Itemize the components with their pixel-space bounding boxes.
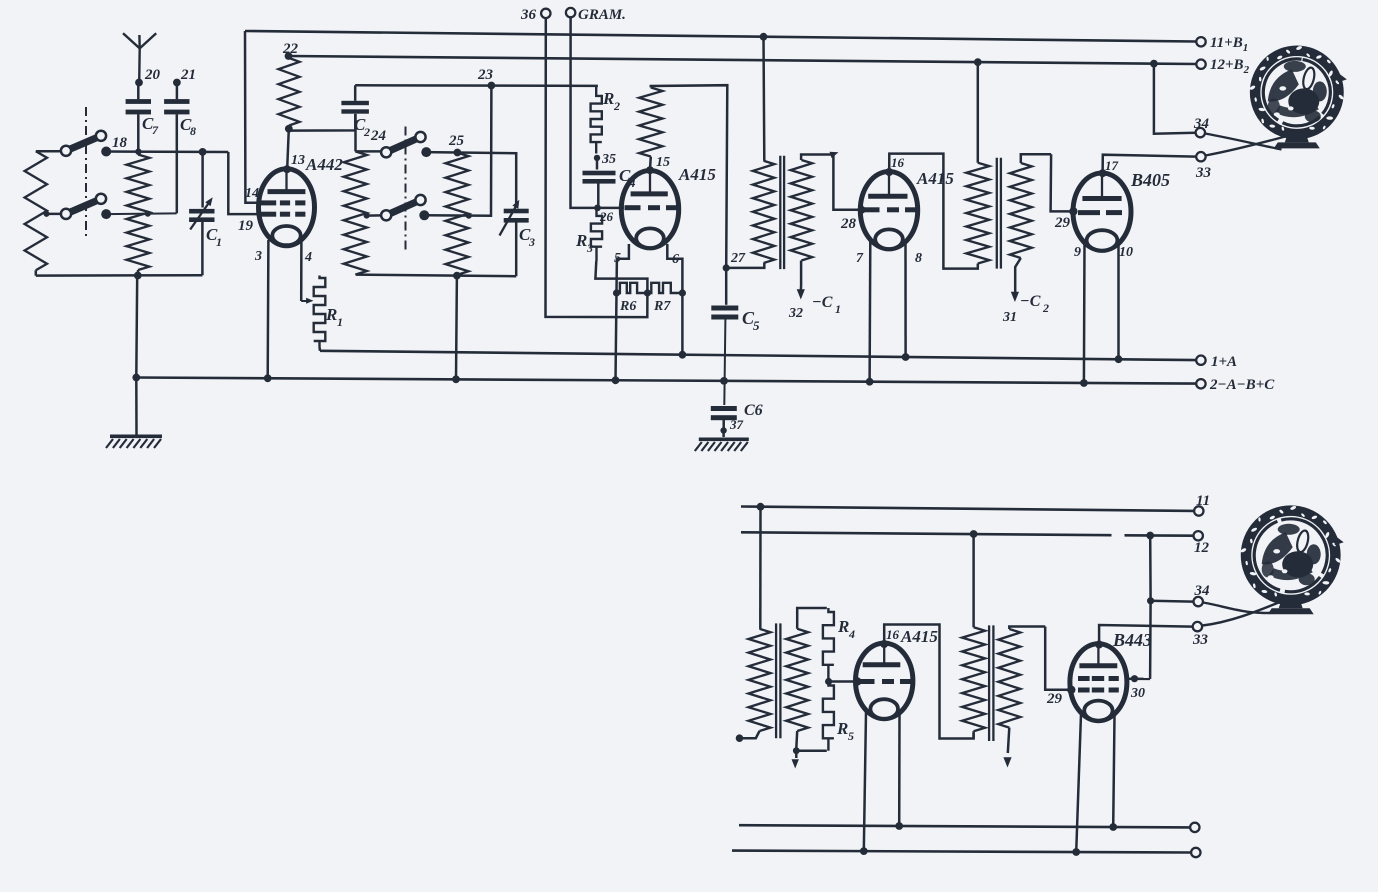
svg-text:31: 31 xyxy=(1002,310,1017,325)
label 14 xyxy=(245,186,259,201)
label B443 xyxy=(1112,630,1152,650)
pin 16 dot of V3 xyxy=(885,168,893,176)
svg-text:33: 33 xyxy=(1195,165,1212,181)
node L4 bottom xyxy=(453,272,461,280)
node V6fil-right xyxy=(1109,823,1117,831)
svg-text:30: 30 xyxy=(1130,686,1145,701)
label 6 xyxy=(672,252,679,267)
input stub dot of T3 xyxy=(736,734,744,742)
transformer T4 primary xyxy=(962,627,985,738)
svg-text:4: 4 xyxy=(848,627,855,641)
svg-text:17: 17 xyxy=(1105,158,1119,173)
svg-text:15: 15 xyxy=(656,155,670,170)
T2 secondary bias arrow (-C2) xyxy=(1011,288,1019,302)
wire node23 drop to L4 tap xyxy=(424,86,492,216)
T1 secondary bias arrow (-C1) xyxy=(797,286,805,300)
label B405 xyxy=(1130,170,1170,190)
node 27 xyxy=(723,251,746,272)
switch 18 contact dots xyxy=(101,147,111,220)
svg-text:10: 10 xyxy=(1119,245,1133,260)
wire pin 19 lead xyxy=(228,152,261,214)
node pin7-bus2 xyxy=(866,378,874,386)
wire T2 sec to B405 grid 29 xyxy=(1051,154,1072,211)
terminal 1+A xyxy=(1196,354,1237,370)
svg-text:B405: B405 xyxy=(1130,170,1170,190)
wire bottom bus 11 xyxy=(741,507,1194,511)
svg-text:27: 27 xyxy=(730,251,746,266)
wire T3 sec bottom to R5 xyxy=(796,749,827,752)
wire +B1 drop to T1 primary xyxy=(762,37,765,161)
tube V3 A415 xyxy=(860,172,917,250)
label 17 xyxy=(1105,158,1119,173)
node 20 xyxy=(135,67,160,86)
node V5 grid dot xyxy=(853,677,861,685)
svg-text:A415: A415 xyxy=(678,165,716,184)
label A415 (V3) xyxy=(916,169,954,188)
wire term34b to speaker2 base xyxy=(1203,603,1281,614)
svg-text:20: 20 xyxy=(144,67,161,83)
node R6 left xyxy=(613,289,620,296)
label R3 xyxy=(575,231,593,255)
node 29 dot xyxy=(1069,207,1077,215)
wire bottom bus 12b xyxy=(1125,534,1195,537)
slider arrow into R1 xyxy=(301,298,313,304)
svg-text:37: 37 xyxy=(729,417,744,432)
wire lower bus 2 xyxy=(732,851,1191,853)
terminal 2-A-B+C xyxy=(1196,377,1275,393)
wire bus11 drop to T3 primary xyxy=(759,507,762,629)
wire terminal33 to speaker body xyxy=(1206,136,1290,156)
resistor R4 xyxy=(823,608,834,682)
transformer T4 core xyxy=(989,625,993,741)
loudspeaker (top) xyxy=(1249,45,1347,148)
wire V5 anode to T4 primary bottom xyxy=(884,625,973,739)
wire bus 1+A xyxy=(320,351,1196,360)
node screen/term34 T xyxy=(1147,597,1154,604)
wire node to V1 anode pin 13 xyxy=(287,129,289,169)
terminal 36 xyxy=(520,7,551,23)
label 22 xyxy=(282,41,299,57)
label 30 xyxy=(1130,686,1145,701)
resistor R2 (grid leak) xyxy=(591,86,602,154)
node bus2 left end xyxy=(132,374,140,382)
switch 24 lower arm xyxy=(381,195,426,221)
label R5 xyxy=(836,719,854,743)
loudspeaker (bottom) xyxy=(1240,505,1344,614)
svg-text:29: 29 xyxy=(1046,691,1063,707)
node pin8-busA xyxy=(902,353,910,361)
transformer T1 secondary xyxy=(791,155,834,287)
svg-text:−C: −C xyxy=(1020,293,1041,310)
label 32 xyxy=(788,306,803,321)
svg-text:12: 12 xyxy=(1194,540,1210,556)
label R7 xyxy=(653,299,671,314)
wire +B2 to terminal 34 xyxy=(1154,64,1196,134)
label 5 xyxy=(614,251,621,266)
svg-text:5: 5 xyxy=(848,729,854,743)
arrow on T1 secondary top corner xyxy=(830,152,839,158)
label 19 xyxy=(238,218,254,234)
node V6fil-left xyxy=(1072,848,1080,856)
wire L3 tap to switch 24 lower xyxy=(367,214,384,217)
node pin3 on bus2 xyxy=(264,374,272,382)
svg-text:22: 22 xyxy=(282,41,299,57)
wire lower bus 1 xyxy=(739,825,1190,827)
terminal 11 (bottom) xyxy=(1194,493,1210,516)
node on bus 12 at T4 feed xyxy=(970,530,978,538)
label 24 xyxy=(370,128,387,144)
terminal 12+B2 xyxy=(1196,57,1249,76)
label 13 xyxy=(291,153,305,168)
label 29 (bottom) xyxy=(1046,691,1063,707)
ground at C6 xyxy=(722,431,725,438)
svg-text:R: R xyxy=(325,305,337,324)
capacitor C4 xyxy=(583,158,637,206)
wire pin8 of V3 to busA xyxy=(904,241,907,357)
wire V5 filament left to lower bus2 xyxy=(864,712,866,851)
terminal GRAM xyxy=(566,7,626,23)
terminal 34 (bottom) xyxy=(1194,583,1211,606)
svg-text:35: 35 xyxy=(601,152,616,167)
node 35 xyxy=(594,152,616,167)
svg-text:33: 33 xyxy=(1192,632,1209,648)
chassis ground symbol xyxy=(106,435,162,449)
svg-text:8: 8 xyxy=(190,124,196,138)
svg-text:R7: R7 xyxy=(653,299,671,314)
wire bottom return (L3/L4/C3) xyxy=(356,275,516,277)
label -C1 xyxy=(812,294,841,316)
pin16 dot of V5 xyxy=(880,640,888,648)
svg-text:R: R xyxy=(602,89,614,108)
resistor R5 xyxy=(823,682,834,751)
wire pin5 of V2 to R6 left xyxy=(617,244,629,291)
label -C2 xyxy=(1020,293,1049,315)
tube V2 A415 xyxy=(621,171,678,249)
tube V4 B405 xyxy=(1073,173,1131,251)
svg-text:18: 18 xyxy=(112,135,128,151)
label 9 xyxy=(1074,245,1081,260)
wire bus12 drop to screen/term34 xyxy=(1149,536,1152,679)
svg-text:R: R xyxy=(575,231,587,250)
svg-text:5: 5 xyxy=(753,318,760,333)
wire T to terminal 34 (bottom) xyxy=(1151,600,1193,603)
terminal lower bus1 xyxy=(1190,823,1199,832)
label 10 xyxy=(1119,245,1133,260)
svg-text:−C: −C xyxy=(812,294,833,311)
node 22 junction on +B2 bus xyxy=(285,52,293,60)
wire bottom return (L1/L2/C1) xyxy=(36,274,203,277)
svg-text:R6: R6 xyxy=(619,299,636,314)
transformer T3 core xyxy=(776,623,780,738)
svg-text:3: 3 xyxy=(586,241,593,255)
wire R3 bottom to R6R7 mid xyxy=(595,261,647,291)
svg-text:B443: B443 xyxy=(1112,630,1152,650)
node V5fil-right xyxy=(895,822,903,830)
tube V5 A415 xyxy=(856,643,913,719)
svg-text:4: 4 xyxy=(304,250,312,265)
node L2 ground junction xyxy=(134,272,142,280)
node pin10-busA xyxy=(1115,355,1123,363)
node coil2 top xyxy=(135,149,141,155)
svg-text:34: 34 xyxy=(1193,116,1210,132)
node L3 tap xyxy=(364,213,370,219)
svg-text:A415: A415 xyxy=(900,627,938,646)
wire +B2 drop to T2 primary xyxy=(977,62,980,163)
svg-text:R: R xyxy=(837,617,849,636)
wire R4R5 mid to V5 grid xyxy=(829,680,857,683)
svg-text:19: 19 xyxy=(238,218,254,234)
wire +B1 to pin 14 of V1 xyxy=(245,31,260,203)
transformer T2 primary xyxy=(966,163,989,269)
node on bus 12 at B443 screen drop xyxy=(1146,532,1154,540)
label 15 xyxy=(656,155,670,170)
node 21 xyxy=(173,67,196,86)
resistor R3 xyxy=(591,208,602,261)
transformer T2 core xyxy=(997,158,1001,269)
wire V6 filament left to lower bus2 xyxy=(1076,714,1081,852)
capacitor C6 xyxy=(711,402,763,429)
wire GRAM to grid node 26 xyxy=(571,17,597,208)
wire V6 filament right to lower bus1 xyxy=(1113,716,1114,827)
resistor R7 (filament) xyxy=(647,283,682,293)
svg-text:A442: A442 xyxy=(305,155,343,174)
node on bus 11 at T3 feed xyxy=(757,503,765,511)
node L4-bus2 xyxy=(452,375,460,383)
capacitor C8 xyxy=(164,83,196,214)
switch 24 contact dots xyxy=(419,147,431,220)
wire pin9 of V4 to bus2 xyxy=(1083,243,1086,383)
label 16 (V5) xyxy=(886,627,900,642)
switch 24 upper arm xyxy=(381,132,426,158)
capacitor C2 xyxy=(341,85,370,151)
wire node26 to V2 grid xyxy=(598,207,625,210)
svg-text:2: 2 xyxy=(363,125,370,139)
wire terminal34 to speaker base xyxy=(1205,134,1282,150)
capacitor C3 (variable) xyxy=(500,200,536,276)
capacitor C5 xyxy=(711,268,760,405)
svg-text:C6: C6 xyxy=(744,402,763,419)
svg-text:28: 28 xyxy=(840,216,857,232)
tube V6 B443 xyxy=(1070,644,1127,721)
label 7 xyxy=(856,251,864,266)
wire bottom bus 12a xyxy=(741,532,1112,535)
svg-text:16: 16 xyxy=(891,155,905,170)
svg-text:16: 16 xyxy=(886,627,900,642)
resistor R6 (filament) xyxy=(617,283,648,293)
svg-text:21: 21 xyxy=(180,67,196,83)
chassis ground symbol 2 xyxy=(695,438,749,452)
wire pin6 of V2 to R7 right xyxy=(667,244,682,291)
node junction on +B1 bus at transformer T1 feed xyxy=(760,33,768,41)
svg-text:1: 1 xyxy=(835,302,841,316)
terminal 34 (top) xyxy=(1193,116,1210,137)
terminal lower bus2 xyxy=(1191,848,1200,857)
capacitor C7 xyxy=(126,83,159,152)
wire pin 4 of V1 to R1 slider xyxy=(300,240,303,301)
label R4 xyxy=(837,617,855,641)
label R2 xyxy=(602,89,620,113)
terminal 12 (bottom) xyxy=(1194,531,1210,556)
svg-text:29: 29 xyxy=(1054,215,1071,231)
pin 13 dot of V1 xyxy=(283,165,291,173)
inductor L2 (tuning coil) xyxy=(127,155,150,271)
svg-text:2: 2 xyxy=(1042,301,1049,315)
node junction on +B2 bus at terminal-34 drop xyxy=(1150,60,1158,68)
pin 15 dot of V2 xyxy=(646,166,654,174)
svg-text:24: 24 xyxy=(370,128,387,144)
resistor 22 (anode resistor of V1) xyxy=(279,56,300,129)
node C5/C6 on bus2 xyxy=(720,377,728,385)
wire L1 tap to switch xyxy=(44,211,65,217)
node T3 sec bottom xyxy=(793,747,800,754)
wire pin10 of V4 to busA xyxy=(1117,243,1120,359)
pin 17 dot of V4 xyxy=(1099,169,1107,177)
svg-text:32: 32 xyxy=(788,306,803,321)
wire L2 bottom lead xyxy=(137,270,140,276)
terminal 33 (bottom) xyxy=(1192,622,1209,648)
node 23 xyxy=(477,67,495,89)
wire L4 bottom to bus2 xyxy=(455,276,458,380)
node C1 top junction xyxy=(199,148,207,156)
node R6/R7 mid xyxy=(644,289,651,296)
node R6L-bus2 xyxy=(612,376,620,384)
node R4/R5 midpoint xyxy=(825,678,832,685)
T4 secondary bias arrow xyxy=(1003,757,1011,767)
transformer T2 secondary xyxy=(1010,154,1051,288)
switch 18 gang dash-dot line xyxy=(85,107,87,240)
transformer T1 core xyxy=(780,156,784,269)
wire V5 filament right to lower bus1 xyxy=(898,714,901,826)
wire V6 anode to terminal 33 xyxy=(1099,625,1192,645)
terminal 11+B1 xyxy=(1196,35,1248,54)
inductor L3 xyxy=(344,151,384,274)
svg-text:11: 11 xyxy=(1196,493,1210,509)
transformer T1 primary xyxy=(728,161,775,268)
svg-text:2−A−B+C: 2−A−B+C xyxy=(1209,377,1275,393)
node R7R-busA xyxy=(679,351,687,359)
transformer T4 secondary xyxy=(998,627,1045,754)
wire terminal36 to R6R7 midpoint xyxy=(546,18,648,317)
label A415 (V5) xyxy=(900,627,938,646)
label 3 xyxy=(254,249,262,264)
node L4 tap xyxy=(466,213,472,219)
svg-text:9: 9 xyxy=(1074,245,1081,260)
wire T4 sec to B443 grid 29 xyxy=(1045,627,1071,690)
wire pin 3 of V1 to bus2 xyxy=(266,240,269,378)
tall resistor above pin 15 (anode load V2) xyxy=(639,88,662,170)
node 28 dot xyxy=(858,206,866,214)
node 25 xyxy=(448,133,465,156)
switch 18 lower arm xyxy=(61,194,106,219)
label 8 xyxy=(915,251,922,266)
wire bus 2-A-B+C xyxy=(136,378,1196,384)
wire switch to L2 tap / C8 xyxy=(106,211,177,217)
pin dot V6 top xyxy=(1095,641,1103,649)
wire R7-right to bus 1+A xyxy=(681,293,684,355)
svg-text:3: 3 xyxy=(254,249,262,264)
svg-text:1: 1 xyxy=(216,235,222,249)
svg-text:23: 23 xyxy=(477,67,494,83)
wire R6-left to bus2 xyxy=(616,293,617,380)
svg-text:36: 36 xyxy=(520,7,537,23)
transformer T3 primary xyxy=(740,629,771,738)
svg-text:8: 8 xyxy=(915,251,922,266)
switch 18 upper arm xyxy=(61,131,106,156)
label A415 (V2) xyxy=(678,165,716,184)
label R6 xyxy=(619,299,636,314)
node pin9-bus2 xyxy=(1080,379,1088,387)
node junction on +B2 bus at transformer T2 feed xyxy=(974,58,982,66)
wire V3 anode to T2 primary bottom xyxy=(889,154,974,269)
label A442 xyxy=(305,155,343,174)
wire 23-line (C2 top to R2) xyxy=(355,84,598,87)
svg-text:13: 13 xyxy=(291,153,305,168)
node 26 xyxy=(594,205,613,225)
tube V1 A442 xyxy=(259,169,315,246)
wire ground drop xyxy=(135,378,138,435)
switch 24 gang dash-dot line xyxy=(405,127,407,251)
T3 secondary bias arrow xyxy=(792,752,799,769)
svg-text:7: 7 xyxy=(152,123,159,137)
svg-text:GRAM.: GRAM. xyxy=(578,7,626,23)
terminal 33 (top) xyxy=(1195,152,1212,181)
wire junction line (antenna node) xyxy=(106,150,228,153)
svg-text:2: 2 xyxy=(613,99,620,113)
capacitor C1 (variable) xyxy=(189,152,222,275)
svg-text:A415: A415 xyxy=(916,169,954,188)
wire pin7 of V3 to bus2 xyxy=(868,241,871,382)
node R7 right xyxy=(679,289,686,296)
antenna xyxy=(123,33,156,82)
label 4 xyxy=(304,250,312,265)
wire bus12 drop to T4 primary xyxy=(972,534,975,627)
wire bus +B1 (line to terminal 11+B1) xyxy=(245,31,1196,42)
label 18 xyxy=(112,135,128,151)
wire anode-load top to node 27 xyxy=(651,85,728,268)
svg-text:3: 3 xyxy=(528,235,535,249)
svg-text:34: 34 xyxy=(1194,583,1211,599)
pin 30 lead of V6 xyxy=(1126,675,1150,682)
node V6 grid dot (29) xyxy=(1067,686,1075,694)
label R1 xyxy=(325,305,343,329)
transformer T3 secondary xyxy=(786,608,827,749)
wire bus +B2 (line to terminal 12+B2) xyxy=(289,56,1197,64)
label 16 (V3) xyxy=(891,155,905,170)
node V5fil-left xyxy=(860,847,868,855)
wire T1 sec to V3 grid 28 xyxy=(833,155,861,210)
wire V4 plate pin17 to terminal 33 xyxy=(1103,155,1196,174)
label 29 xyxy=(1054,215,1071,231)
svg-text:7: 7 xyxy=(856,251,864,266)
wire node to C2 xyxy=(289,114,356,131)
label 28 xyxy=(840,216,857,232)
wire to chassis ground xyxy=(135,276,138,378)
wire term33b to speaker2 body xyxy=(1202,601,1283,626)
node 37 xyxy=(720,417,743,434)
svg-text:25: 25 xyxy=(448,133,465,149)
node below resistor 22 xyxy=(285,125,293,133)
svg-text:1: 1 xyxy=(337,315,343,329)
svg-text:R: R xyxy=(836,719,848,738)
inductor L1 (antenna coil) xyxy=(25,151,65,275)
resistor R1 (filament rheostat) xyxy=(314,276,326,351)
svg-text:1+A: 1+A xyxy=(1211,354,1237,370)
wire switch24 to node 25 to C3 xyxy=(426,152,516,205)
inductor L4 xyxy=(446,153,469,275)
label 31 xyxy=(1002,310,1017,325)
